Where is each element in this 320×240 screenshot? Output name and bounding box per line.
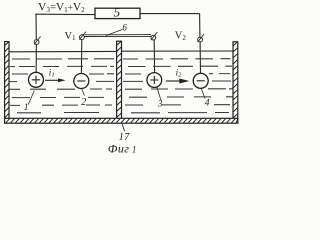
wire: from terminal V1 down to electrode 2: [80, 40, 82, 74]
terminal V2 (bar right, circle with tick): [151, 35, 156, 40]
liquid surface line right cell: [122, 50, 234, 52]
svg-text:6: 6: [122, 22, 127, 32]
electrode 3 (anode +): [147, 73, 162, 88]
current arrow i2: [166, 67, 190, 83]
wire: from terminal V2 down to electrode 3: [153, 40, 155, 73]
box 5 (measuring device): [95, 8, 140, 18]
conductor bar 6 (double line): [84, 35, 151, 37]
wire: top left horizontal from corner to box 5: [35, 13, 95, 15]
liquid dashes left cell: [6, 59, 114, 113]
terminal V1 (bar left, circle with tick): [80, 35, 85, 40]
svg-text:1: 1: [24, 103, 29, 113]
svg-text:V3=V1+V2: V3=V1+V2: [38, 2, 85, 15]
svg-text:5: 5: [114, 4, 121, 19]
svg-text:2: 2: [81, 97, 86, 108]
terminal V3 left (circle with tick): [34, 40, 39, 45]
leader for label 17: [122, 123, 125, 131]
electrode 2 (cathode -): [74, 74, 89, 89]
leader for label 6: [106, 29, 123, 35]
wire: top right horizontal from box 5 to right corner: [140, 13, 200, 15]
equation V3=V1+V2: [38, 2, 85, 15]
current arrow i1: [45, 67, 65, 82]
svg-text:4: 4: [205, 99, 210, 109]
liquid surface line left cell: [9, 50, 117, 52]
liquid dashes right cell: [123, 59, 233, 113]
wire: left vertical to electrode 1: [35, 44, 37, 72]
electrode 1 (anode +): [29, 72, 44, 87]
wire: right vertical to electrode 4: [199, 42, 201, 73]
wire: left vertical drop to terminal: [35, 14, 37, 39]
electrode 4 (cathode -): [193, 73, 208, 88]
tank right wall (hatched): [233, 42, 238, 119]
tank bottom wall 17 (hatched): [5, 118, 238, 123]
svg-text:3: 3: [157, 98, 163, 108]
leader for label 1: [28, 91, 34, 105]
leader for label 2: [82, 89, 85, 96]
wire: right vertical drop to terminal: [199, 14, 201, 37]
svg-text:Фиг1: Фиг1: [108, 141, 137, 155]
tank middle partition (hatched): [117, 41, 122, 119]
leader for label 4: [201, 88, 205, 98]
leader for label 3: [157, 87, 161, 100]
terminal V3 right (circle with tick): [198, 37, 203, 42]
tank left wall (hatched): [5, 42, 9, 120]
